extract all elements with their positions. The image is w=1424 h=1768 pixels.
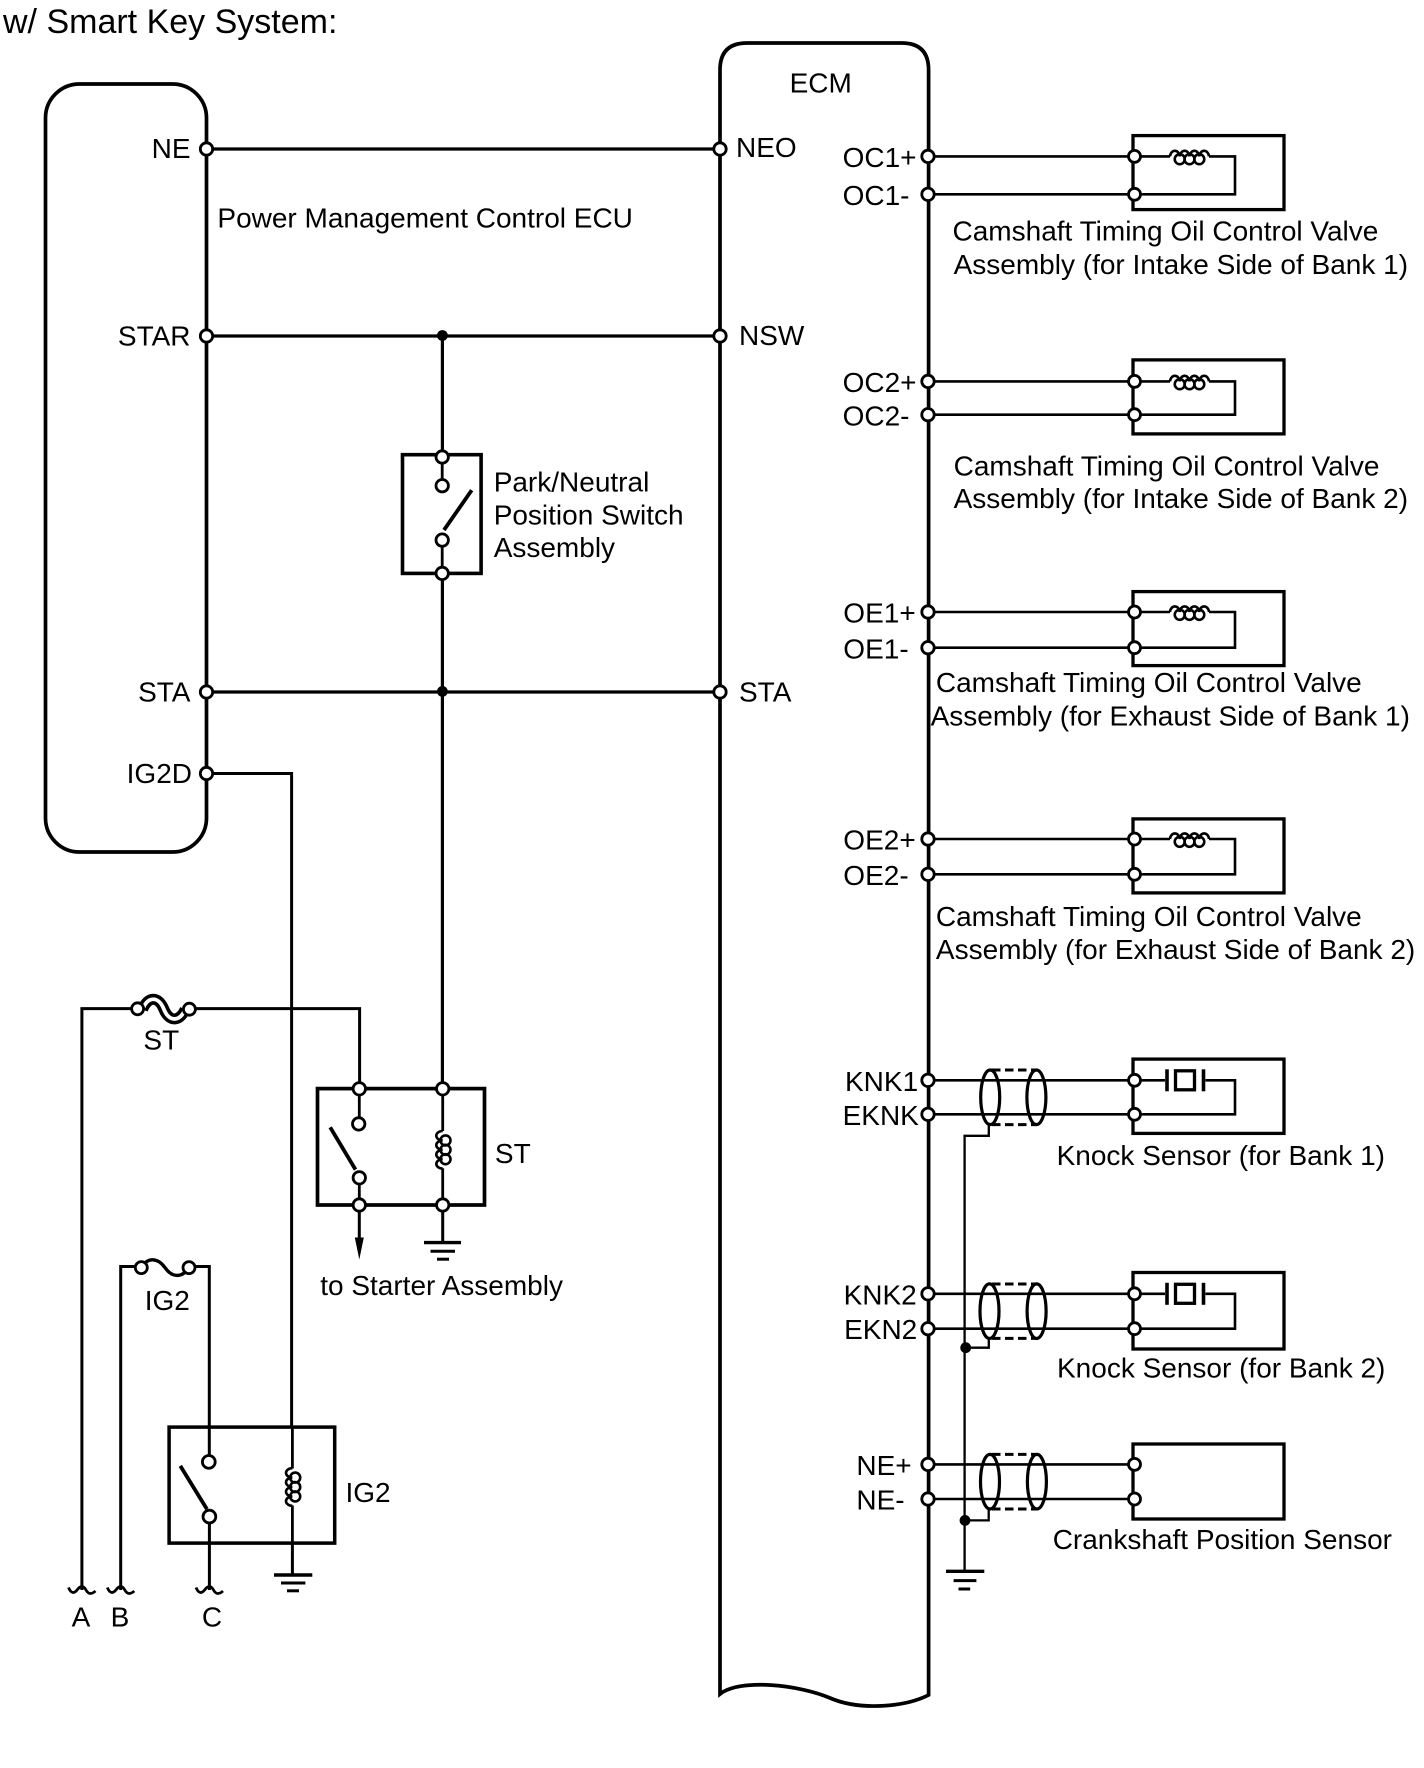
pin OE2+ [922,833,934,845]
svg-text:STAR: STAR [118,321,191,352]
connector break C [196,1587,223,1594]
svg-text:ST: ST [495,1138,531,1169]
fuse IG2 terminal right [183,1262,195,1274]
valve 4 terminal + [1129,833,1141,845]
svg-text:Assembly (for Intake Side of B: Assembly (for Intake Side of Bank 1) [954,249,1408,280]
pin NEO [714,143,726,155]
IG2 relay coil wire [291,1543,294,1575]
Park/Neutral Position Switch box [403,455,482,574]
pin IG2D [200,767,212,779]
IG2 relay box [169,1427,335,1543]
IG2 relay switch wire bottom [208,1517,211,1590]
shield NE drain wire [965,1509,989,1521]
Park/Neutral switch wire bottom [441,540,444,573]
svg-text:Camshaft Timing Oil Control Va: Camshaft Timing Oil Control Valve [954,450,1380,481]
fuse ST terminal left [132,1003,144,1015]
svg-text:KNK1: KNK1 [845,1066,918,1097]
shield NE dashed top [992,1453,1036,1456]
IG2 relay switch blade [180,1466,207,1509]
Park/Neutral contact upper [436,480,448,492]
pin KNK1 [922,1074,934,1086]
svg-text:Assembly: Assembly [494,532,615,563]
svg-text:w/ Smart Key System:: w/ Smart Key System: [2,3,337,41]
wire NE+ [928,1463,1135,1466]
svg-text:Park/Neutral: Park/Neutral [494,466,650,497]
shield NE ellipse right [1027,1454,1046,1509]
shield KNK1 ellipse left [981,1070,1000,1125]
ECM box with wavy bottom edge [720,43,929,1706]
svg-text:Crankshaft Position Sensor: Crankshaft Position Sensor [1053,1524,1392,1555]
pin STA right [714,686,726,698]
connector break B [107,1587,134,1594]
ST relay terminal top-right [437,1083,449,1095]
Park/Neutral terminal top [436,451,448,463]
junction dot shield NE [960,1515,971,1526]
svg-text:Assembly (for Intake Side of B: Assembly (for Intake Side of Bank 2) [954,483,1408,514]
svg-text:NE: NE [152,133,191,164]
svg-text:NE-: NE- [856,1485,904,1516]
knock sensor 2 piezo wiring [1135,1293,1166,1296]
IG2 relay coil lead wires [291,1427,294,1468]
shield KNK2 dashed top [992,1283,1036,1286]
shield NE ellipse left [981,1454,1000,1509]
pin OC1- [922,188,934,200]
pin OE1- [922,642,934,654]
IG2 relay contact upper [202,1456,215,1469]
junction dot at STAR wire [437,330,448,341]
svg-text:OE1+: OE1+ [843,598,915,629]
ST relay terminal bottom-right [437,1199,449,1211]
shield KNK2 ellipse right [1027,1284,1046,1339]
shield KNK1 drain wire [965,1124,989,1571]
crankshaft position sensor box [1133,1444,1284,1519]
ground under IG2 relay coil [274,1573,312,1576]
valve 2 coil loop wiring [1135,380,1171,383]
ST relay contact upper [353,1118,365,1130]
shield KNK2 drain wire [966,1338,989,1348]
svg-text:OE1-: OE1- [843,633,908,664]
svg-text:NEO: NEO [736,132,797,163]
svg-text:EKNK: EKNK [843,1100,920,1131]
IG2 relay contact lower [203,1510,216,1523]
junction dot at STA wire [437,686,448,697]
knock sensor 1 terminal EKNK [1129,1108,1141,1120]
knock sensor 2 terminal EKN [1129,1323,1141,1335]
ST relay switch blade [330,1127,355,1169]
pin KNK2 [922,1288,934,1300]
Park/Neutral terminal bottom [436,567,448,579]
shield KNK1 dashed bottom [992,1123,1036,1126]
pin STAR [200,330,212,342]
shield KNK2 dashed bottom [992,1337,1036,1340]
svg-text:OC1-: OC1- [843,180,910,211]
knock sensor 1 piezo wiring [1135,1079,1166,1082]
pin STA left [200,686,212,698]
svg-text:A: A [72,1602,91,1633]
svg-text:IG2: IG2 [145,1285,190,1316]
pin OC2- [922,409,934,421]
valve assembly 3 box [1133,592,1284,666]
fuse IG2 element [141,1260,189,1276]
valve 2 terminal + [1129,375,1141,387]
wire B up to fuse IG2 [121,1267,136,1591]
ST relay box [318,1089,485,1205]
valve assembly 1 box [1133,136,1284,210]
valve 1 coil [1170,151,1209,157]
knock sensor 1 box [1133,1059,1284,1133]
wire A up to fuse ST [82,1009,132,1590]
ST relay coil wire [441,1089,444,1131]
shield KNK1 ellipse right [1027,1070,1046,1125]
Park/Neutral switch wire top [441,457,444,486]
knock sensor 1 terminal KNK [1129,1074,1141,1086]
knock sensor 2 terminal KNK [1129,1288,1141,1300]
wire OC1+ [928,155,1135,158]
svg-text:to Starter Assembly: to Starter Assembly [320,1270,563,1301]
svg-text:Camshaft Timing Oil Control Va: Camshaft Timing Oil Control Valve [936,901,1362,932]
crank sensor terminal NE+ [1129,1458,1141,1470]
svg-text:NE+: NE+ [856,1450,911,1481]
svg-text:Camshaft Timing Oil Control Va: Camshaft Timing Oil Control Valve [953,216,1379,247]
pin NE- [922,1493,934,1505]
valve 1 coil loop wiring [1135,155,1171,158]
fuse ST element [143,999,186,1019]
valve assembly 4 box [1133,819,1284,893]
svg-text:IG2: IG2 [346,1477,391,1508]
svg-text:Power Management Control ECU: Power Management Control ECU [217,203,633,234]
Park/Neutral contact lower [436,534,448,546]
pin EKN2 [922,1323,934,1335]
wire NE- [928,1498,1135,1501]
ST relay contact lower [353,1172,365,1184]
Park/Neutral switch blade [444,490,472,530]
svg-text:KNK2: KNK2 [844,1279,917,1310]
pin EKNK [922,1108,934,1120]
svg-text:ECM: ECM [790,68,852,99]
wire OE1- [928,646,1135,649]
fuse IG2 terminal left [135,1262,147,1274]
ST relay terminal top-left [353,1083,365,1095]
svg-text:OE2-: OE2- [843,860,908,891]
svg-text:OC2+: OC2+ [843,367,917,398]
valve 2 terminal - [1129,409,1141,421]
wire STAR to NSW [207,334,721,337]
valve 3 terminal - [1129,642,1141,654]
wire IG2D horizontal [207,774,292,1428]
valve 4 terminal - [1129,868,1141,880]
valve 3 coil loop wiring [1135,611,1171,614]
connector break A [69,1587,96,1594]
svg-text:B: B [111,1602,130,1633]
wire OE2- [928,873,1135,876]
IG2 relay coil [286,1468,292,1506]
wire EKN2 [928,1327,1135,1330]
svg-text:OC2-: OC2- [843,400,910,431]
ST relay switch wire bottom [358,1178,361,1205]
svg-text:Position Switch: Position Switch [494,499,684,530]
pin OE2- [922,868,934,880]
pin NE+ [922,1458,934,1470]
svg-text:OC1+: OC1+ [843,142,917,173]
shield KNK2 ellipse left [980,1284,999,1339]
wire STA to STA [207,690,721,693]
svg-text:NSW: NSW [739,320,805,351]
wire OC2+ [928,380,1135,383]
Power Management Control ECU box [46,84,207,852]
valve 4 coil loop wiring [1135,838,1171,841]
wire OE2+ [928,838,1135,841]
pin NSW [714,330,726,342]
wire fuse ST to ST relay [195,1009,360,1089]
wire OC1- [928,193,1135,196]
pin OE1+ [922,606,934,618]
knock sensor 2 piezo element [1165,1283,1169,1305]
knock sensor 1 piezo element [1165,1069,1169,1091]
valve assembly 2 box [1133,360,1284,434]
valve 1 terminal + [1129,150,1141,162]
shield KNK1 dashed top [992,1069,1036,1072]
arrow to Starter Assembly [358,1212,361,1243]
wire STAR junction down to Park/Neutral switch [441,336,444,455]
valve 4 coil [1170,833,1209,839]
ground under ST relay [441,1212,444,1243]
valve 3 coil [1170,606,1209,612]
svg-text:Assembly (for Exhaust Side of: Assembly (for Exhaust Side of Bank 2) [936,934,1415,965]
wire OC2- [928,413,1135,416]
ST relay terminal bottom-left [353,1199,365,1211]
wire KNK2 [928,1293,1135,1296]
fuse ST terminal right [183,1003,195,1015]
crank sensor terminal NE- [1129,1493,1141,1505]
junction dot shield KNK2 [960,1342,971,1353]
svg-text:ST: ST [143,1025,179,1056]
valve 3 terminal + [1129,606,1141,618]
svg-text:OE2+: OE2+ [843,825,915,856]
svg-text:Knock Sensor (for Bank 1): Knock Sensor (for Bank 1) [1057,1140,1385,1171]
svg-text:Camshaft Timing Oil Control Va: Camshaft Timing Oil Control Valve [936,667,1362,698]
valve 1 terminal - [1129,188,1141,200]
ST relay switch wire top [358,1089,361,1124]
wire EKNK [928,1113,1135,1116]
pin OC1+ [922,150,934,162]
svg-text:STA: STA [138,677,191,708]
svg-text:IG2D: IG2D [127,758,192,789]
svg-text:EKN2: EKN2 [844,1314,917,1345]
ST relay coil [436,1131,442,1169]
svg-text:Knock Sensor (for Bank 2): Knock Sensor (for Bank 2) [1057,1353,1385,1384]
svg-text:Assembly (for Exhaust Side of: Assembly (for Exhaust Side of Bank 1) [931,701,1410,732]
svg-text:C: C [202,1602,222,1633]
shield NE dashed bottom [992,1508,1036,1511]
pin NE [200,143,212,155]
wire NE to NEO [207,147,721,150]
wire fuse IG2 to IG2 relay [195,1267,209,1457]
pin OC2+ [922,375,934,387]
valve 2 coil [1170,376,1209,382]
knock sensor 2 box [1133,1273,1284,1350]
wire KNK1 [928,1079,1135,1082]
svg-text:STA: STA [739,677,792,708]
wire OE1+ [928,611,1135,614]
ground shield drain [946,1570,984,1573]
wire Park/Neutral switch to ST relay coil crossing STA [441,573,444,1088]
